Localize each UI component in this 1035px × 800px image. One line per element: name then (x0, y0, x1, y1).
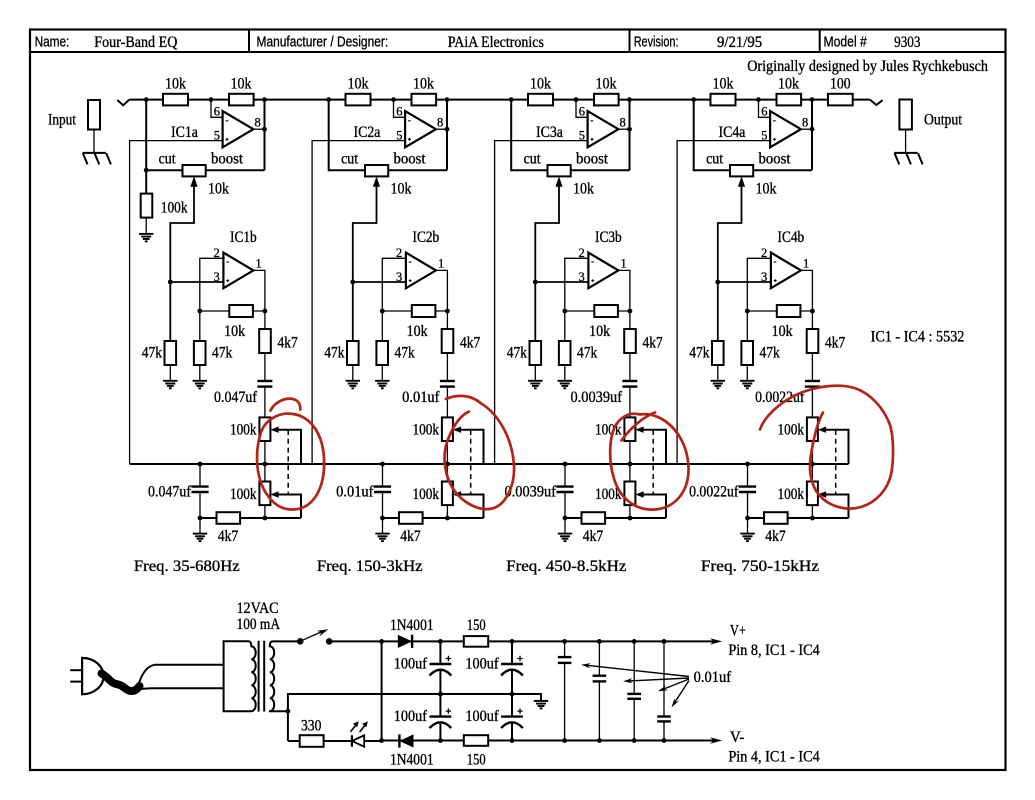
junction rect tap top (379, 639, 384, 644)
stage 3 : wire op-amp output (618, 128, 629, 130)
junction 10k fb left stage 4 (745, 309, 750, 314)
svg-text:Revision:: Revision: (634, 35, 679, 51)
stage 1 : wire 47k second to ground (199, 365, 201, 381)
stage 2 : wire pin5 feedback (312, 141, 405, 464)
stage 3 : resistor 10k input (528, 94, 553, 106)
stage 1 : wire pin2 node (200, 258, 224, 341)
junction top bus input stage 1 (144, 97, 149, 102)
stage 3 : wire wiper to IC3b input (535, 185, 559, 341)
svg-text:0.047uf: 0.047uf (148, 484, 192, 501)
stage 1 : wire 100k to ground (145, 218, 147, 234)
junction bypass 4 top (662, 639, 667, 644)
stage 4 : resistor 10k input (711, 94, 736, 106)
junction bus cap top stage 3 (563, 462, 568, 467)
stage 2 : op-amp IC2b (406, 253, 436, 289)
stage 3 : wiper arrow lower 100k (635, 491, 643, 497)
svg-text:4k7: 4k7 (218, 528, 239, 545)
switch pole junction (297, 638, 304, 645)
stage 3 : op-amp IC3a (588, 111, 619, 147)
stage 4 : resistor 47k first (712, 341, 724, 365)
stage 1 : wire bus cap to ground (199, 492, 201, 534)
stage 2 : ganged pot dashed link (470, 430, 472, 494)
capacitor 100uf C3 plus sign (446, 708, 451, 713)
stage 4 : op-amp IC4b (771, 253, 801, 289)
capacitor 100uf C3 lead upper (439, 694, 441, 717)
capacitor 100uf C2 lead upper (511, 641, 513, 664)
stage 1 : wire input node vertical (145, 100, 147, 194)
stage 2 : wire pin2 node (382, 258, 406, 341)
wire mid rail (0V) (288, 694, 541, 711)
LED arrows (351, 725, 366, 732)
svg-text:47k: 47k (507, 345, 527, 362)
resistor 150 upper (464, 636, 488, 647)
junction top bus out stage 2 (445, 97, 450, 102)
stage 4 : wire cap to lower network (811, 387, 813, 518)
junction bus cap bottom stage 3 (563, 516, 568, 521)
junction pot bottom stage 2 (445, 516, 450, 521)
stage 4 : wire pin2 node (747, 258, 771, 341)
svg-text:10k: 10k (224, 323, 245, 340)
svg-text:100k: 100k (230, 486, 257, 503)
stage 3 : wire lower wiper bracket (643, 495, 666, 519)
stage 4 : wire 10k feedback (IC4b) (747, 310, 812, 312)
capacitor 100uf C4 plates (501, 715, 523, 717)
junction C2/C4 mid (510, 692, 515, 697)
svg-text:100uf: 100uf (465, 708, 499, 725)
svg-text:4k7: 4k7 (583, 528, 604, 545)
stage 4 : wire wiper to IC4b input (718, 185, 742, 341)
stage 1 : wiper arrow lower 100k (270, 491, 278, 497)
stage 1 : wire pin6 from bus (211, 100, 223, 118)
svg-text:10k: 10k (772, 323, 793, 340)
svg-text:150: 150 (467, 752, 486, 769)
stage 4 : wire cut-boost pot left (694, 169, 730, 171)
junction 10k fb left stage 2 (380, 309, 385, 314)
stage 2 : wire 47k second to ground (381, 365, 383, 381)
stage 4 : capacitor 0.0022uf (bus) (747, 464, 749, 487)
ground (earth) below 47k second stage 4 (740, 381, 754, 389)
stage 3 : wire upper wiper to bus (643, 430, 666, 464)
stage 2 : wire upper wiper to bus (460, 430, 483, 464)
junction op-amp output stage 4 (810, 127, 815, 132)
junction bypass 3 top (632, 639, 637, 644)
stage 4 : wire 47k first to ground (717, 365, 719, 381)
capacitor 100uf C1 lead upper (439, 641, 441, 664)
input break symbol (117, 100, 129, 106)
junction bypass 3 bottom (632, 738, 637, 743)
ground (earth) below 47k second stage 1 (193, 381, 207, 389)
svg-text:IC1b: IC1b (230, 229, 257, 246)
svg-text:0.01uf: 0.01uf (402, 389, 440, 406)
stage 3 : resistor 4k7 lower (582, 512, 606, 524)
stage 2 : resistor 47k second (376, 341, 388, 365)
svg-text:100k: 100k (413, 486, 440, 503)
svg-text:47k: 47k (324, 345, 344, 362)
switch throw junction (326, 638, 333, 645)
junction bus cap bottom stage 1 (198, 516, 203, 521)
wire LED rail (288, 740, 300, 742)
stage 4 : wire input node vertical (693, 100, 695, 172)
stage 2 : potentiometer 100k lower (442, 482, 453, 506)
annotation red circle stage 3 (610, 414, 688, 510)
junction top bus mid stage 3 (574, 97, 579, 102)
wire cord to transformer lower (140, 688, 224, 689)
svg-text:0.01uf: 0.01uf (336, 484, 374, 501)
stage 3 : wire input node vertical (510, 100, 512, 172)
ground (earth) below bus cap stage 1 (193, 534, 207, 542)
capacitor 0.01uf bypass 4 (663, 641, 665, 716)
stage 1 : resistor 4k7 (upper) (259, 329, 271, 353)
stage 2 : resistor 4k7 (upper) (442, 329, 454, 353)
stage 3 : op-amp IC3b plus mark (591, 279, 594, 282)
svg-text:Output: Output (924, 112, 962, 129)
ground (earth) below 47k second stage 3 (558, 381, 572, 389)
svg-text:100uf: 100uf (465, 656, 499, 673)
stage 1 : capacitor 0.047uf (bus) (199, 464, 201, 487)
stage 4 : resistor 10k feedback (777, 94, 802, 106)
switch blade (300, 631, 324, 642)
svg-text:10k: 10k (348, 76, 369, 93)
diode 1N4001 lower (399, 734, 413, 747)
svg-text:10k: 10k (407, 323, 428, 340)
stage 4 : wire pin6 from bus (759, 100, 771, 118)
wire V+ rail (329, 640, 718, 642)
stage 3 : resistor 47k first (530, 341, 542, 365)
stage 1 : wire op-amp output (253, 128, 264, 130)
svg-text:47k: 47k (212, 345, 232, 362)
wire V- rail (382, 740, 717, 742)
stage 1 : wire cut-boost pot left (146, 169, 182, 171)
svg-text:8: 8 (437, 116, 443, 130)
stage 1 : wiper arrow upper 100k (270, 427, 278, 433)
stage 1 : wire pin5 feedback (130, 141, 223, 464)
stage 3 : wire pin6 from bus (576, 100, 588, 118)
stage 1 : wire pin3 node (170, 281, 223, 283)
junction bus cap top stage 1 (198, 462, 203, 467)
junction pot bottom stage 1 (263, 516, 268, 521)
svg-text:10k: 10k (573, 181, 594, 198)
svg-text:boost: boost (394, 151, 427, 168)
AC plug prong lower (70, 681, 82, 683)
junction bus cap bottom stage 4 (745, 516, 750, 521)
svg-text:V-: V- (730, 729, 745, 746)
stage 4 : resistor 47k second (741, 341, 753, 365)
stage 4 : resistor 10k feedback IC4b (777, 305, 801, 317)
stage 1 : potentiometer 100k upper (259, 417, 270, 441)
title row divider 1 (248, 30, 250, 53)
stage 2 : wire IC2b output down (436, 270, 448, 381)
junction op-amp output stage 3 (627, 127, 632, 132)
stage 2 : wire pin6 from bus (394, 100, 406, 118)
junction bus cap bottom stage 2 (380, 516, 385, 521)
wire input jack to ground (93, 130, 95, 153)
annotation red circle stage 1 tail (271, 399, 301, 411)
svg-text:150: 150 (467, 617, 486, 634)
stage 3 : wire bus cap to ground (564, 492, 566, 534)
svg-text:10k: 10k (413, 76, 434, 93)
stage 3 : wire 10k feedback (IC3b) (565, 310, 630, 312)
stage 2 : op-amp IC2b plus mark (409, 279, 412, 282)
title row divider 3 (819, 30, 821, 53)
svg-text:6: 6 (761, 105, 767, 119)
stage 3 : ganged pot dashed link (652, 430, 654, 494)
resistor 330 (300, 735, 324, 747)
junction pin3/wiper stage 2 (350, 280, 355, 285)
capacitor 100uf C2 lead lower (511, 670, 513, 694)
stage 4 : op-amp IC4b minus mark (774, 261, 777, 263)
svg-text:Pin 4, IC1 - IC4: Pin 4, IC1 - IC4 (728, 749, 819, 766)
stage 2 : op-amp IC2a plus mark (408, 138, 411, 141)
stage 3 : wire output to bus junction (629, 100, 631, 171)
junction C2/C4 top (510, 639, 515, 644)
svg-text:47k: 47k (395, 345, 415, 362)
capacitor 0.01uf bypass 3 (633, 641, 635, 694)
svg-text:IC1 - IC4 : 5532: IC1 - IC4 : 5532 (871, 329, 965, 346)
wire top bus (129, 99, 870, 101)
junction pots at bus stage 2 (445, 462, 450, 467)
V+ rail arrowhead (710, 638, 722, 644)
ground (earth) below bus cap stage 2 (375, 534, 389, 542)
stage 2 : wiper arrow lower 100k (453, 491, 461, 497)
stage 2 : potentiometer 100k upper (442, 417, 453, 441)
stage 3 : resistor 47k second (559, 341, 571, 365)
capacitor 100uf C3 lead lower (439, 723, 441, 741)
stage 4 : resistor 4k7 lower (764, 512, 788, 524)
svg-text:100: 100 (830, 76, 851, 93)
stage 4 : potentiometer 10k cut-boost (730, 165, 753, 176)
stage 3 : op-amp IC3b minus mark (591, 261, 594, 263)
svg-text:Freq. 750-15kHz: Freq. 750-15kHz (701, 558, 819, 575)
capacitor 100uf C2 plates (501, 663, 523, 665)
svg-text:0.0022uf: 0.0022uf (689, 484, 739, 501)
stage 3 : potentiometer 100k lower (624, 482, 635, 506)
stage 1 : wire upper wiper to bus (278, 430, 301, 464)
stage 1 : ganged pot dashed link (287, 430, 289, 494)
wire output jack to ground (905, 130, 907, 153)
svg-text:Freq. 450-8.5kHz: Freq. 450-8.5kHz (506, 558, 626, 575)
svg-text:100k: 100k (778, 422, 805, 439)
junction bypass 4 bottom (662, 738, 667, 743)
stage 2 : wire pin3 node (353, 281, 406, 283)
stage 4 : resistor 4k7 (upper) (807, 329, 819, 353)
stage 1 : pot wiper arrow (190, 176, 197, 186)
svg-text:cut: cut (159, 151, 176, 168)
ground (earth) below 47k first stage 4 (711, 381, 725, 389)
stage 1 : resistor 47k first (165, 341, 177, 365)
capacitor 100uf C1 plus sign (446, 656, 451, 661)
svg-text:100k: 100k (413, 422, 440, 439)
AC plug body (82, 658, 104, 694)
svg-text:10k: 10k (756, 181, 777, 198)
svg-text:10k: 10k (778, 76, 799, 93)
stage 4 : op-amp IC4b plus mark (774, 279, 777, 282)
capacitor 0.01uf bypass 1 (564, 641, 566, 657)
junction top bus mid stage 2 (391, 97, 396, 102)
stage 3 : resistor 10k feedback (594, 94, 619, 106)
stage 1 : resistor 100k (141, 194, 153, 218)
stage 2 : op-amp IC2a (405, 111, 436, 147)
junction top bus out stage 1 (262, 97, 267, 102)
transformer T1 core (258, 641, 260, 712)
stage 1 : resistor 10k feedback IC1b (229, 305, 253, 317)
stage 2 : resistor 10k feedback IC2b (412, 305, 436, 317)
ground (earth) below 47k first stage 2 (346, 381, 360, 389)
stage 1 : op-amp IC1a minus mark (226, 120, 229, 122)
capacitor 100uf C2 plus sign (517, 656, 522, 661)
stage 1 : potentiometer 10k cut-boost (183, 165, 206, 176)
stage 2 : wire cap to lower network (446, 387, 448, 518)
svg-text:100 mA: 100 mA (237, 616, 281, 633)
svg-text:10k: 10k (231, 76, 252, 93)
stage 2 : wire cut-boost pot left (329, 169, 365, 171)
stage 3 : wire 47k first to ground (534, 365, 536, 381)
stage 1 : wire 10k feedback (IC1b) (200, 310, 265, 312)
junction C2/C4 bot (510, 738, 515, 743)
junction secondary bottom (286, 709, 291, 714)
junction top bus input stage 2 (326, 97, 331, 102)
resistor 100 (output) (828, 94, 853, 106)
svg-text:Originally designed by Jules R: Originally designed by Jules Rychkebusch (747, 58, 988, 75)
junction top bus input stage 4 (691, 97, 696, 102)
stage 1 : wire lower wiper bracket (278, 495, 301, 519)
junction bus cap top stage 2 (380, 462, 385, 467)
junction op-amp output stage 2 (445, 127, 450, 132)
AC plug prong upper (70, 669, 82, 671)
stage 4 : pot wiper arrow (738, 176, 745, 186)
stage 3 : pot wiper arrow (555, 176, 562, 186)
stage 2 : resistor 4k7 lower (399, 512, 423, 524)
svg-text:330: 330 (301, 718, 321, 735)
junction bypass 1 top (562, 639, 567, 644)
transformer T1 secondary winding (270, 641, 299, 711)
junction top bus out stage 3 (627, 97, 632, 102)
svg-text:Freq. 35-680Hz: Freq. 35-680Hz (134, 558, 240, 575)
stage 4 : wire pin3 node (718, 281, 771, 283)
stage 1 : op-amp IC1a plus mark (226, 138, 229, 141)
stage 4 : wire cut-boost pot right (753, 169, 812, 171)
stage 3 : wire pin3 node (535, 281, 588, 283)
stage 2 : op-amp IC2b minus mark (409, 261, 412, 263)
stage 2 : wire output to bus junction (446, 100, 448, 171)
transformer T1 primary bracket (224, 641, 249, 711)
stage 1 : wire wiper to IC1b input (170, 185, 194, 341)
junction 10k fb right stage 2 (445, 309, 450, 314)
AC cord (102, 674, 140, 692)
stage 1 : resistor 47k second (194, 341, 206, 365)
stage 3 : capacitor 0.0039uf (622, 381, 637, 387)
junction pot left stage 1 (144, 168, 149, 173)
junction top bus out stage 4 (810, 97, 815, 102)
transformer T1 primary winding (249, 641, 256, 711)
stage 1 : wire lower horizontal (200, 517, 301, 519)
stage 4 : ganged pot dashed link (835, 430, 837, 494)
svg-text:Model #: Model # (824, 35, 867, 51)
annotation red circle stage 4 (760, 386, 893, 509)
stage 1 : resistor 10k input (163, 94, 188, 106)
ground (earth) below 47k first stage 1 (163, 381, 177, 389)
ground (earth) below bus cap stage 3 (558, 534, 572, 542)
resistor 150 lower (464, 735, 488, 746)
stage 1 : op-amp IC1b plus mark (226, 279, 229, 282)
stage 4 : potentiometer 100k lower (807, 482, 818, 506)
stage 1 : wire output to bus junction (264, 100, 266, 171)
stage 4 : op-amp IC4a (770, 111, 801, 147)
stage 3 : wire IC3b output down (618, 270, 630, 381)
svg-text:8: 8 (255, 116, 261, 130)
stage 4 : potentiometer 100k upper (807, 417, 818, 441)
chassis ground below input jack (83, 153, 111, 165)
svg-text:100k: 100k (230, 422, 257, 439)
stage 4 : wire 47k second to ground (746, 365, 748, 381)
junction pots at bus stage 3 (628, 462, 633, 467)
junction pots at bus stage 4 (810, 462, 815, 467)
stage 2 : wire op-amp output (436, 128, 447, 130)
stage 1 : op-amp IC1b (223, 253, 253, 289)
stage 2 : potentiometer 10k cut-boost (365, 165, 388, 176)
svg-text:10k: 10k (596, 76, 617, 93)
annotation red circle stage 2 (445, 396, 515, 509)
ground (earth) below bus cap stage 4 (740, 534, 754, 542)
stage 2 : resistor 10k input (346, 94, 371, 106)
svg-text:9303: 9303 (894, 34, 920, 51)
svg-text:Freq. 150-3kHz: Freq. 150-3kHz (317, 558, 423, 575)
svg-text:boost: boost (759, 151, 792, 168)
svg-text:IC3b: IC3b (595, 229, 622, 246)
svg-text:4k7: 4k7 (825, 335, 845, 352)
chassis ground below output jack (894, 153, 922, 165)
stage 1 : op-amp IC1a (223, 111, 254, 147)
svg-text:IC4b: IC4b (778, 229, 805, 246)
stage 2 : wire lower wiper bracket (460, 495, 483, 519)
svg-text:4k7: 4k7 (400, 528, 421, 545)
stage 3 : resistor 4k7 (upper) (624, 329, 636, 353)
stage 4 : wire pin5 feedback (677, 141, 770, 464)
stage 2 : resistor 47k first (347, 341, 359, 365)
junction pot bottom stage 3 (628, 516, 633, 521)
stage 3 : capacitor 0.0039uf (bus) (564, 464, 566, 487)
svg-text:PAiA Electronics: PAiA Electronics (448, 34, 544, 51)
stage 2 : resistor 10k feedback (412, 94, 437, 106)
stage 2 : wire bus cap to ground (382, 492, 384, 534)
stage 4 : wire lower horizontal (748, 517, 849, 519)
stage 4 : op-amp IC4a plus mark (773, 138, 776, 141)
svg-text:Four-Band EQ: Four-Band EQ (94, 34, 177, 51)
stage 2 : wire input node vertical (328, 100, 330, 172)
svg-text:10k: 10k (589, 323, 610, 340)
capacitor 100uf C4 lead lower (511, 723, 513, 741)
stage 3 : op-amp IC3a plus mark (591, 138, 594, 141)
capacitor 100uf C4 plus sign (517, 708, 522, 713)
svg-text:IC4a: IC4a (719, 124, 746, 141)
junction bypass 2 bottom (597, 738, 602, 743)
wire rectifier tap vertical (381, 641, 383, 740)
stage 2 : op-amp IC2a minus mark (408, 120, 411, 122)
svg-text:9/21/95: 9/21/95 (717, 34, 762, 51)
stage 2 : wiper arrow upper 100k (453, 427, 461, 433)
wire cord to transformer upper (139, 665, 224, 683)
svg-text:8: 8 (620, 116, 626, 130)
stage 1 : wire IC1b output down (253, 270, 265, 381)
stage 1 : potentiometer 100k lower (259, 482, 270, 506)
stage 3 : resistor 10k feedback IC3b (594, 305, 618, 317)
stage 4 : wire output to bus junction (811, 100, 813, 171)
svg-text:47k: 47k (577, 345, 597, 362)
svg-text:6: 6 (396, 105, 402, 119)
stage 3 : op-amp IC3a minus mark (591, 120, 594, 122)
stage 3 : wire lower horizontal (565, 517, 666, 519)
wire bottom feedback bus (130, 463, 849, 465)
junction pin3/wiper stage 1 (168, 280, 173, 285)
